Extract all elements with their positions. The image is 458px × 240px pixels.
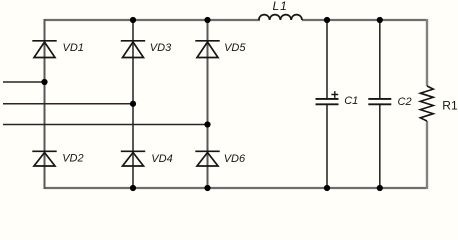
- svg-text:R1: R1: [442, 99, 458, 113]
- diode VD3: [121, 41, 145, 58]
- node bottom bus / column 2: [130, 185, 136, 191]
- svg-text:VD1: VD1: [63, 42, 84, 54]
- node bottom bus / C2 branch: [377, 185, 383, 191]
- diode VD1: [32, 41, 56, 58]
- wire phase input C: [3, 124, 208, 126]
- wire column 1 (VD1/VD2 leg): [44, 19, 46, 189]
- node phase C / column 3: [204, 121, 210, 127]
- node bottom bus / C1 branch: [324, 185, 330, 191]
- node top bus / C1 branch: [324, 17, 330, 23]
- wire right edge lower leg: [426, 121, 428, 189]
- capacitor C1 (polarized): [316, 91, 339, 104]
- wire phase input B: [3, 103, 133, 105]
- diode VD2: [32, 151, 56, 166]
- wire column 3 (VD5/VD6 leg): [207, 19, 209, 189]
- node phase A / column 1: [41, 79, 47, 85]
- inductor L1: [259, 15, 302, 20]
- node top bus / column 3: [204, 17, 210, 23]
- node bottom bus / column 3: [204, 185, 210, 191]
- wire top bus right segment: [302, 19, 427, 21]
- wire C2 branch: [379, 19, 381, 189]
- diode VD4: [121, 151, 145, 166]
- resistor R1: [420, 86, 433, 121]
- svg-text:L1: L1: [273, 0, 288, 13]
- node top bus / C2 branch: [377, 17, 383, 23]
- svg-text:VD6: VD6: [224, 153, 246, 165]
- svg-text:C1: C1: [344, 95, 358, 107]
- diode VD5: [195, 41, 219, 58]
- svg-text:VD3: VD3: [150, 42, 172, 54]
- wire bottom bus: [45, 187, 428, 189]
- node phase B / column 2: [130, 101, 136, 107]
- svg-text:VD4: VD4: [151, 153, 172, 165]
- node top bus / column 2: [130, 17, 136, 23]
- wire C1 branch: [326, 19, 328, 189]
- wire right edge upper leg: [426, 19, 428, 86]
- capacitor C2: [368, 99, 391, 104]
- wire phase input A: [3, 81, 45, 83]
- svg-text:VD2: VD2: [62, 153, 83, 165]
- svg-text:C2: C2: [398, 96, 412, 108]
- wire column 2 (VD3/VD4 leg): [132, 19, 134, 189]
- svg-text:VD5: VD5: [224, 42, 246, 54]
- wire top bus left segment: [45, 19, 261, 21]
- diode VD6: [195, 151, 219, 166]
